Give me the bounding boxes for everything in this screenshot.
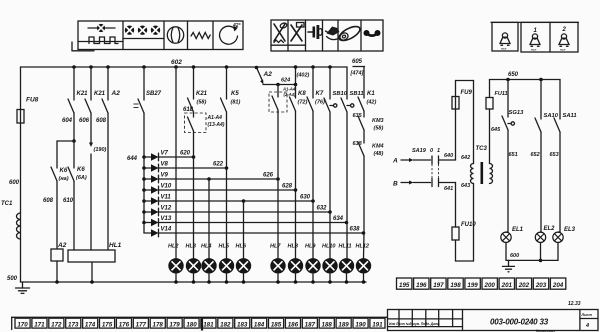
svg-text:626: 626	[263, 173, 274, 179]
diode V10 row 628	[142, 188, 146, 192]
svg-text:V14: V14	[161, 227, 172, 233]
svg-text:[474]: [474]	[350, 71, 364, 77]
diode V9 row 626	[142, 177, 146, 181]
svg-text:(48): (48)	[374, 151, 384, 157]
icon three lamps	[125, 26, 134, 35]
contact KM4 (48)	[363, 130, 365, 143]
svg-text:V11: V11	[161, 195, 172, 201]
svg-text:187: 187	[305, 322, 316, 329]
lamp HL5	[219, 259, 233, 273]
svg-text:TC3: TC3	[476, 146, 488, 152]
switch SA19	[431, 156, 433, 164]
icon hand	[327, 27, 340, 36]
svg-text:K21: K21	[196, 91, 208, 97]
svg-text:HL6: HL6	[236, 243, 247, 249]
svg-text:198: 198	[450, 282, 461, 289]
ground right	[508, 260, 510, 266]
node row630-243	[242, 199, 246, 203]
svg-text:(81): (81)	[231, 100, 241, 106]
svg-text:HL3: HL3	[186, 243, 196, 249]
node rail-193	[192, 65, 196, 69]
fuse FU9	[455, 81, 457, 161]
svg-text:650: 650	[508, 72, 519, 78]
icon roller	[337, 24, 362, 44]
wire A2 to rail500	[56, 261, 58, 282]
contact K1 (42)	[363, 67, 365, 99]
svg-text:177: 177	[136, 322, 147, 329]
lamp HL4	[202, 259, 216, 273]
svg-text:632: 632	[317, 206, 328, 212]
svg-text:643: 643	[461, 183, 470, 189]
svg-text:634: 634	[333, 216, 344, 222]
contact K7 (76)	[312, 67, 314, 98]
svg-text:12.33: 12.33	[568, 301, 581, 307]
svg-text:200: 200	[484, 282, 496, 289]
lamp HL9	[306, 259, 320, 273]
svg-text:V7: V7	[161, 151, 169, 157]
lamp HL2	[169, 259, 183, 273]
svg-text:641: 641	[444, 186, 453, 192]
arrow from A2	[257, 68, 263, 82]
ground main	[22, 282, 24, 288]
transformer TC3 secondary	[490, 164, 493, 184]
svg-text:HL12: HL12	[356, 243, 369, 249]
svg-text:184: 184	[254, 322, 265, 329]
svg-text:199: 199	[467, 282, 478, 289]
relay coil A2	[51, 249, 63, 261]
svg-text:201: 201	[501, 282, 513, 289]
svg-text:(42): (42)	[367, 100, 377, 106]
contact K21 606	[90, 67, 92, 100]
wire B to switch	[414, 182, 431, 184]
svg-text:600: 600	[9, 180, 20, 186]
wire to lamp HL8	[295, 111, 297, 259]
svg-text:(72): (72)	[298, 100, 308, 106]
svg-text:K21: K21	[77, 91, 89, 97]
node rail-91	[89, 65, 93, 69]
diode V7 row 620	[142, 155, 146, 159]
svg-text:B: B	[393, 181, 398, 188]
svg-text:42°: 42°	[232, 23, 242, 29]
wire to lamp HL7	[277, 110, 279, 259]
node 605 bar	[353, 66, 365, 68]
transformer TC3 primary	[471, 164, 474, 184]
node rail-313	[311, 65, 315, 69]
wire riser to rail	[489, 80, 491, 98]
svg-text:т.п: т.п	[560, 48, 565, 52]
wire diode bus 644	[143, 113, 145, 233]
wire FU10 bottom loop	[455, 240, 457, 261]
contact SA10	[540, 80, 542, 120]
wire rail 500	[21, 281, 367, 283]
svg-text:EL3: EL3	[564, 227, 576, 233]
lamp HL3	[186, 259, 200, 273]
wire left vertical 600	[20, 67, 22, 282]
title block frame	[388, 310, 599, 331]
wire 624	[263, 84, 296, 86]
contact SB11	[346, 67, 348, 99]
icon bell plain	[502, 33, 507, 38]
wire to lamp EL1	[507, 130, 509, 232]
wire 640	[440, 159, 456, 161]
contact K6 (na)	[56, 141, 58, 168]
wire 608 to HL1 box	[107, 113, 109, 250]
svg-text:K5: K5	[231, 91, 239, 97]
svg-text:K6: K6	[77, 167, 85, 173]
svg-text:190: 190	[355, 322, 366, 329]
svg-text:186: 186	[288, 322, 299, 329]
svg-text:HL9: HL9	[305, 243, 316, 249]
node rail-74	[72, 65, 76, 69]
wire to lamp HL10	[329, 112, 331, 259]
contact A2	[107, 67, 109, 100]
wire 641	[440, 182, 456, 184]
svg-text:197: 197	[433, 282, 444, 289]
lamp HL8	[288, 259, 302, 273]
node rail650-508	[506, 78, 510, 82]
svg-text:т.п: т.п	[501, 47, 506, 51]
wire to lamp EL3	[559, 132, 561, 232]
svg-text:Лист: Лист	[581, 313, 593, 317]
svg-text:1: 1	[437, 148, 440, 154]
svg-text:182: 182	[220, 322, 231, 329]
svg-text:4: 4	[585, 323, 589, 329]
wire 626 to lamp HL4	[208, 179, 210, 259]
svg-text:FU8: FU8	[26, 97, 39, 104]
lamp EL3	[553, 232, 563, 242]
svg-text:A1-A4: A1-A4	[282, 87, 296, 92]
contact A1-A4 dashed 2	[277, 85, 279, 98]
transformer TC1	[17, 213, 21, 239]
svg-text:203: 203	[535, 282, 547, 289]
svg-text:640: 640	[444, 153, 453, 159]
icon panel 3 frame	[491, 21, 578, 23]
svg-text:(6А): (6А)	[76, 175, 87, 181]
wire rail to lamp HL2	[175, 67, 177, 259]
svg-text:181: 181	[203, 322, 214, 329]
svg-text:V8: V8	[161, 162, 169, 168]
diode V8 row 622	[142, 166, 146, 170]
svg-text:V10: V10	[161, 184, 172, 190]
wire to lamp HL11	[346, 112, 348, 259]
contact K6 (6A)	[73, 141, 75, 168]
node rail-176	[174, 65, 178, 69]
svg-text:SB10: SB10	[333, 91, 348, 97]
svg-text:500: 500	[7, 276, 18, 282]
svg-text:191: 191	[372, 322, 383, 329]
svg-text:196: 196	[416, 282, 427, 289]
transformer TC3 core	[480, 162, 483, 184]
indicator box HL1	[68, 250, 115, 262]
svg-text:A2: A2	[111, 90, 121, 97]
wire secondary riser 645	[489, 109, 491, 164]
svg-text:HL2: HL2	[168, 243, 178, 249]
svg-text:195: 195	[399, 282, 410, 289]
icon no-solder	[274, 24, 285, 41]
icon no-tool	[291, 25, 302, 41]
svg-text:(58): (58)	[374, 126, 384, 132]
wire 630 to lamp HL6	[243, 201, 245, 259]
contact K8 (72)	[295, 67, 297, 85]
svg-text:SB27: SB27	[146, 91, 162, 97]
node rail-330	[328, 65, 332, 69]
icon dumbbell	[364, 30, 370, 36]
svg-text:KM4: KM4	[372, 144, 384, 150]
fuse FU11	[486, 98, 493, 110]
svg-text:(402): (402)	[297, 73, 310, 79]
svg-text:652: 652	[531, 152, 540, 158]
lamp HL11	[339, 259, 353, 273]
node rail-226	[225, 65, 229, 69]
svg-text:K6: K6	[60, 168, 68, 174]
icon plug	[308, 31, 313, 33]
svg-text:TC1: TC1	[1, 201, 13, 207]
svg-text:202: 202	[518, 282, 530, 289]
node rail-144	[142, 65, 146, 69]
svg-text:604: 604	[62, 118, 73, 124]
wire 610 to HL1	[73, 181, 75, 250]
svg-text:618: 618	[183, 107, 194, 113]
node rail-295	[294, 65, 298, 69]
wire to lamp HL12	[363, 156, 365, 233]
svg-text:FU11: FU11	[495, 91, 508, 97]
contact KM3 (58)	[363, 111, 365, 117]
svg-text:602: 602	[171, 59, 182, 66]
wire to lamp HL3	[193, 157, 195, 259]
icon bell 2	[561, 34, 566, 39]
svg-text:624: 624	[281, 78, 290, 84]
svg-text:HL4: HL4	[201, 243, 211, 249]
svg-text:622: 622	[213, 162, 224, 168]
svg-text:651: 651	[509, 152, 518, 158]
svg-text:(2-A4): (2-A4)	[284, 92, 296, 97]
wire K5 to row 622	[226, 112, 228, 168]
svg-text:A: A	[392, 158, 398, 165]
wire to lamp HL9	[312, 111, 314, 259]
svg-text:608: 608	[96, 118, 107, 124]
svg-text:0: 0	[430, 148, 433, 154]
svg-text:K1: K1	[367, 91, 375, 97]
icon round lamp	[167, 27, 183, 43]
icon rotation 42	[220, 26, 238, 44]
svg-text:(на): (на)	[59, 176, 69, 182]
svg-text:2: 2	[562, 27, 567, 33]
svg-text:630: 630	[300, 195, 311, 201]
svg-text:K8: K8	[298, 91, 306, 97]
svg-text:HL8: HL8	[288, 243, 299, 249]
svg-text:K21: K21	[94, 91, 106, 97]
svg-text:A1-A4: A1-A4	[207, 115, 223, 121]
wire HL1 to rail500	[91, 262, 93, 282]
wire lamps bottom	[505, 243, 507, 261]
lamp HL10	[323, 259, 337, 273]
svg-text:V13: V13	[161, 216, 172, 222]
svg-text:642: 642	[461, 155, 470, 161]
svg-text:179: 179	[169, 322, 180, 329]
svg-text:628: 628	[282, 184, 293, 190]
svg-text:HL11: HL11	[339, 243, 352, 249]
icon panel 2 frame	[271, 20, 383, 51]
wire FU9 top loop	[456, 80, 474, 82]
lamp EL1	[501, 232, 511, 242]
svg-text:173: 173	[68, 322, 79, 329]
svg-text:600: 600	[510, 253, 519, 259]
svg-text:638: 638	[350, 227, 361, 233]
wire A to switch	[414, 159, 431, 161]
svg-text:V12: V12	[161, 206, 172, 212]
diode V12 row 632	[142, 210, 146, 214]
svg-text:605: 605	[352, 59, 363, 65]
svg-text:(13-A4): (13-A4)	[208, 122, 225, 128]
svg-text:т.п: т.п	[531, 48, 536, 52]
svg-text:(190): (190)	[94, 147, 107, 153]
svg-text:175: 175	[102, 322, 113, 329]
fuse FU8	[17, 110, 24, 124]
wire rail 650	[490, 79, 561, 81]
svg-text:180: 180	[186, 322, 197, 329]
svg-text:SA10: SA10	[544, 113, 559, 119]
svg-text:620: 620	[180, 151, 191, 157]
wire 604 down	[73, 113, 75, 141]
contact SB27	[143, 67, 145, 100]
svg-text:178: 178	[153, 322, 164, 329]
icon lamp-wave	[88, 27, 115, 29]
contact K5 (81)	[226, 67, 228, 99]
svg-text:K7: K7	[316, 91, 324, 97]
node row626-209	[207, 177, 211, 181]
wire rail 602	[21, 66, 348, 68]
contact SA11	[559, 80, 561, 120]
svg-text:HL5: HL5	[219, 243, 230, 249]
svg-text:SA11: SA11	[563, 113, 577, 119]
svg-text:644: 644	[127, 156, 138, 162]
contact K21 604	[73, 67, 75, 100]
svg-text:HL10: HL10	[322, 243, 335, 249]
svg-text:KM3: KM3	[372, 118, 384, 124]
svg-text:608: 608	[43, 198, 54, 204]
svg-text:188: 188	[322, 322, 333, 329]
contact SB10	[329, 67, 331, 99]
lamp HL6	[236, 259, 250, 273]
svg-text:HL7: HL7	[270, 243, 281, 249]
svg-text:Изм Лист №докум. Подп. Дата: Изм Лист №докум. Подп. Дата	[389, 322, 440, 326]
lamp HL7	[271, 259, 285, 273]
svg-text:606: 606	[79, 118, 90, 124]
svg-text:653: 653	[550, 152, 559, 158]
wire 606 to HL1	[90, 154, 92, 250]
svg-text:A2: A2	[57, 242, 67, 249]
table wire numbers 195-204	[397, 278, 412, 289]
svg-text:SG13: SG13	[509, 110, 525, 116]
icon panel 1 frame	[78, 21, 243, 50]
svg-text:EL1: EL1	[512, 227, 524, 233]
contact A1-A4 dashed	[193, 112, 195, 117]
svg-text:(76): (76)	[315, 100, 325, 106]
contact K21 (58)	[193, 67, 195, 99]
svg-text:EL2: EL2	[544, 226, 556, 232]
table wire numbers 170-191	[15, 318, 30, 328]
svg-text:FU9: FU9	[461, 90, 473, 96]
wire to lamp HL5	[226, 168, 228, 259]
svg-text:171: 171	[34, 322, 45, 329]
svg-text:SA19: SA19	[412, 148, 427, 154]
svg-text:174: 174	[85, 322, 96, 329]
fuse FU10	[455, 183, 457, 228]
svg-text:610: 610	[63, 198, 74, 204]
lamp EL2	[535, 232, 545, 242]
svg-text:SB11: SB11	[350, 91, 364, 97]
svg-text:003-000-0240 33: 003-000-0240 33	[490, 318, 549, 327]
node rail-108	[106, 65, 110, 69]
svg-text:183: 183	[237, 322, 248, 329]
svg-text:170: 170	[17, 322, 28, 329]
svg-text:176: 176	[119, 322, 130, 329]
icon bell 1	[532, 34, 537, 39]
wire to lamp EL2	[540, 132, 542, 232]
svg-text:185: 185	[271, 322, 282, 329]
node rail650-541	[539, 78, 543, 82]
diode V14 row 638	[144, 232, 151, 234]
node rail-256	[255, 66, 259, 70]
lamp HL12	[356, 259, 370, 273]
wire 606 arrow 190	[90, 113, 92, 143]
svg-text:645: 645	[491, 127, 501, 133]
svg-text:172: 172	[51, 322, 62, 329]
svg-text:V9: V9	[161, 173, 169, 179]
table frame bottom	[12, 316, 388, 318]
svg-text:204: 204	[552, 282, 564, 289]
icon zigzag	[191, 33, 210, 39]
wire 608 to A2	[56, 181, 58, 249]
contact SG13	[507, 80, 509, 118]
svg-text:A2: A2	[263, 71, 273, 78]
diode V11 row 630	[142, 199, 146, 203]
svg-text:1: 1	[534, 28, 538, 34]
svg-text:189: 189	[338, 322, 349, 329]
svg-text:HL1: HL1	[109, 242, 122, 249]
diode V13 row 634	[142, 221, 146, 225]
svg-text:(58): (58)	[197, 100, 207, 106]
